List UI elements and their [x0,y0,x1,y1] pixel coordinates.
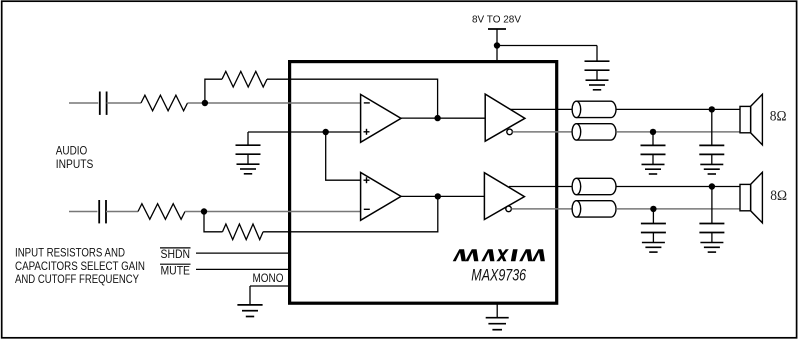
wire L1 to speaker SPK1 plus [616,108,740,110]
wire supply vertical to IC VDD [496,29,498,62]
junction supply node [494,42,500,48]
capacitor filter OUT1+ to ground [699,109,724,174]
junction A1 output node [434,115,440,121]
junction OUT2+ filter node [709,183,715,189]
svg-text:CAPACITORS SELECT GAIN: CAPACITORS SELECT GAIN [15,259,145,273]
wire C2 to R3 [106,211,138,213]
wire node IN1 to op-amp inverting input [205,102,361,104]
label pin MONO [253,271,284,285]
wire SHDN to IC [196,252,291,254]
wire R4 to op-amp A2 output [263,196,438,231]
inductor L1 ferrite bead OUT1+ [572,101,616,117]
wire MONO to IC [250,285,291,287]
wire OUT2- to bead L4 [511,208,572,210]
svg-text:SHDN: SHDN [161,247,191,261]
label note input resistors [15,246,145,287]
label MAX9736 [471,266,526,285]
supply terminal bar [488,28,506,30]
driver U1B output stage [484,173,524,220]
capacitor filter OUT2- to ground [641,209,666,252]
wire OUT2+ to bead L3 [509,186,572,188]
wire L3 to speaker SPK2 plus [616,186,740,188]
resistor R1 input [141,95,188,111]
svg-text:8V TO 28V: 8V TO 28V [472,14,521,26]
wire op-amp A1 output to driver [401,117,485,119]
svg-text:MONO: MONO [253,271,284,285]
wire supply to bypass cap [497,45,597,47]
op-amp A1 [361,94,401,142]
junction node IN1 [202,100,208,106]
resistor R3 input [138,204,185,220]
ground MONO [237,286,262,317]
wire input2 stub [69,211,97,213]
wire IN1 feedback riser [205,79,222,103]
IC U1 MAX9736 body [290,62,557,304]
ground IC exposed pad [486,303,509,330]
resistor R4 feedback ch2 [223,224,264,240]
svg-text:MUTE: MUTE [161,263,191,277]
wire C1 to R1 [107,102,141,104]
wire OUT1- to bead L2 [512,131,572,133]
svg-text:AND CUTOFF FREQUENCY: AND CUTOFF FREQUENCY [15,272,139,286]
wire R2 to op-amp A1 output [267,79,438,118]
inverting bubble OUT2- [506,206,512,212]
label supply 8V TO 28V [472,14,521,26]
wire L2 to speaker SPK1 minus [616,131,740,133]
label SPK2 8 ohm [770,188,787,204]
inductor L4 ferrite bead OUT2- [572,201,616,217]
label pin MUTE [160,263,191,277]
wire L4 to speaker SPK2 minus [616,208,740,210]
wire R3 to node IN2 [185,211,204,213]
label pin SHDN [160,247,191,261]
wire bias node to bypass cap [248,131,326,133]
junction OUT1+ filter node [709,106,715,112]
logo MAXIM [453,249,545,261]
svg-text:8Ω: 8Ω [770,109,787,125]
capacitor C2 input coupling [99,200,106,223]
speaker SPK2 [740,172,762,223]
wire bias node to A1 noninverting input [326,131,361,133]
inverting bubble OUT1- [507,129,513,135]
wire op-amp A2 output to driver [401,195,484,197]
capacitor supply bypass to ground [585,46,610,90]
inductor L3 ferrite bead OUT2+ [572,178,616,194]
driver U1A output stage [485,94,525,141]
wire node IN2 to op-amp inverting input [204,211,361,213]
capacitor C1 input coupling [100,92,107,115]
inductor L2 ferrite bead OUT1- [572,124,616,140]
speaker SPK1 [740,94,762,145]
op-amp A2 [361,173,401,221]
svg-text:AUDIO: AUDIO [56,143,88,157]
label AUDIO INPUTS [56,143,94,171]
capacitor filter OUT1- to ground [641,132,666,174]
capacitor bias bypass to ground [236,132,261,174]
wire input1 stub [69,102,98,104]
junction node IN2 [201,208,207,214]
svg-text:INPUT RESISTORS AND: INPUT RESISTORS AND [15,246,125,260]
wire IN2 feedback drop [204,212,223,232]
junction A2 output node [435,193,441,199]
junction OUT1- filter node [650,129,656,135]
wire OUT1+ to bead L1 [510,108,572,110]
svg-text:8Ω: 8Ω [770,188,787,204]
svg-text:MAX9736: MAX9736 [471,266,526,285]
wire R1 to node IN1 [188,102,205,104]
wire bias node to A2 noninverting input [326,132,361,180]
junction bias node [323,129,329,135]
wire MUTE to IC [196,268,291,270]
svg-text:INPUTS: INPUTS [56,157,94,171]
capacitor filter OUT2+ to ground [699,187,724,253]
resistor R2 feedback ch1 [222,71,267,87]
label SPK1 8 ohm [770,109,787,125]
junction OUT2- filter node [650,206,656,212]
